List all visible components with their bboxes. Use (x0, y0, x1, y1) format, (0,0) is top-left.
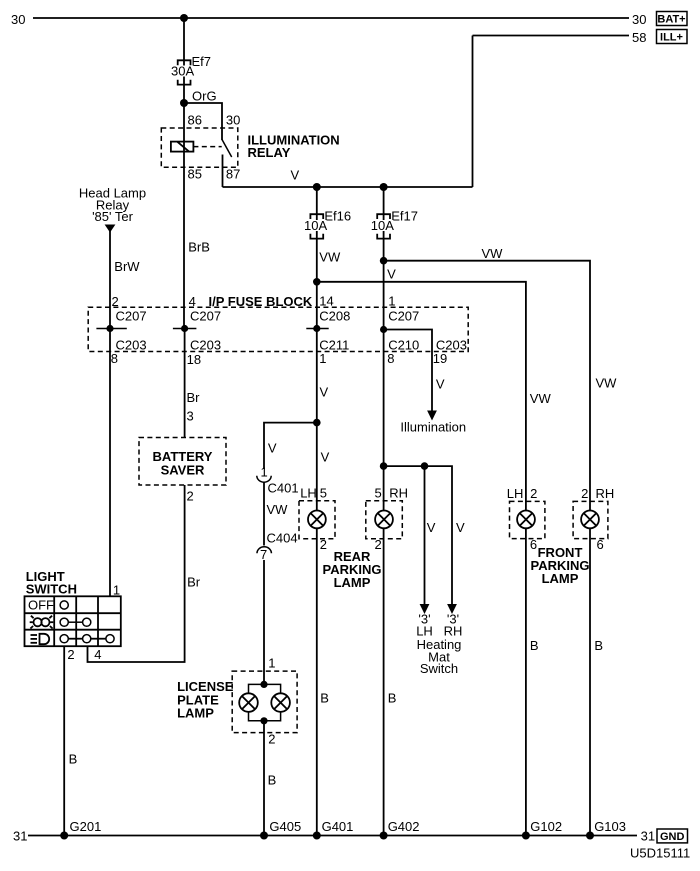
svg-text:7: 7 (260, 547, 267, 562)
wire Ef17 branch vertical to rear RH lamp (383, 187, 385, 511)
svg-text:B: B (594, 638, 603, 653)
rear RH lamp dashed box (366, 501, 403, 539)
svg-text:LAMP: LAMP (177, 706, 214, 721)
svg-text:6: 6 (530, 537, 537, 552)
svg-text:V: V (321, 450, 330, 465)
svg-text:4: 4 (94, 647, 101, 662)
junction dot G103 (586, 832, 594, 840)
svg-text:58: 58 (632, 30, 646, 45)
svg-text:18: 18 (187, 352, 201, 367)
fuse Ef17 rating 10A (370, 218, 394, 233)
arrowhead heating mat RH (447, 604, 457, 614)
svg-text:2: 2 (187, 489, 194, 504)
svg-text:V: V (436, 377, 445, 392)
license lamp left bulb (239, 693, 258, 712)
wire Br from fuse block to battery saver (184, 329, 186, 438)
front LH lamp dashed box (510, 501, 545, 538)
front RH lamp labels (581, 486, 614, 501)
label LICENSE PLATE LAMP (177, 679, 234, 721)
relay switch blade (222, 140, 232, 158)
wire main battery feed vertical (183, 18, 185, 103)
junction dot Ef16 branch to front LH lamp (313, 278, 321, 286)
svg-text:VW: VW (530, 391, 552, 406)
connector C401 socket arc (257, 476, 271, 482)
svg-text:C207: C207 (388, 309, 419, 324)
svg-text:LH: LH (507, 486, 524, 501)
svg-text:V: V (427, 520, 436, 535)
junction tick col1 (96, 328, 126, 330)
svg-text:VW: VW (319, 250, 341, 265)
svg-text:Ef7: Ef7 (192, 54, 212, 69)
svg-text:Switch: Switch (420, 661, 458, 676)
fuse Ef16 (310, 214, 323, 238)
svg-text:V: V (320, 385, 329, 400)
svg-text:1: 1 (261, 465, 268, 480)
arrow from Head Lamp Relay (105, 225, 116, 233)
label REAR PARKING LAMP (323, 549, 382, 590)
wire BrW from head lamp relay to light switch pin 1 (109, 231, 111, 597)
rear RH lamp bulb (375, 511, 393, 529)
wire Ef16 branch vertical to rear LH lamp (316, 187, 318, 511)
junction dot rear lamp feed branch (313, 419, 321, 427)
svg-text:G102: G102 (530, 819, 562, 834)
node Head Lamp Relay 85 Ter label (79, 186, 146, 225)
svg-text:C404: C404 (267, 531, 298, 546)
label Heating Mat Switch (417, 637, 462, 676)
relay dashed box (161, 128, 238, 167)
svg-text:C203: C203 (116, 338, 147, 353)
wire relay pin 87 lead (222, 155, 224, 188)
svg-text:87: 87 (226, 167, 240, 182)
junction dot G201 (60, 832, 68, 840)
light switch table frame (25, 596, 121, 646)
svg-text:OrG: OrG (192, 89, 217, 104)
junction dot G102 (522, 832, 530, 840)
svg-text:LH: LH (300, 486, 317, 501)
license plate lamp dashed box (232, 671, 297, 733)
wire 31 ground rail (28, 835, 637, 837)
svg-text:5: 5 (320, 486, 327, 501)
relay coil (171, 142, 194, 152)
junction dot col3 (313, 325, 320, 332)
fuse Ef16 rating 10A (304, 218, 328, 233)
rear LH lamp pin 5 labels (300, 486, 327, 501)
junction dot col1 (106, 325, 113, 332)
svg-text:V: V (456, 520, 465, 535)
wire relay coil feed (pin 86 to pin 85) (183, 103, 185, 329)
svg-text:Br: Br (187, 575, 201, 590)
wire battery saver output Br down and left to light switch pin 4 (88, 485, 185, 662)
wire V bus from relay 87 to ILL+ drop (223, 186, 473, 188)
wire rear RH lamp to ground (383, 528, 385, 835)
wire light switch pin 2 to ground G201 (63, 646, 65, 835)
rear LH lamp dashed box (299, 501, 335, 539)
svg-text:85: 85 (188, 167, 202, 182)
svg-text:V: V (268, 441, 277, 456)
label LIGHT SWITCH (26, 569, 77, 597)
fuse Ef7 (178, 60, 191, 84)
svg-text:B: B (69, 752, 78, 767)
svg-text:LAMP: LAMP (334, 575, 371, 590)
pin 7 C404 (260, 547, 269, 562)
svg-text:BAT+: BAT+ (657, 14, 685, 26)
wire heating mat branch horizontal (384, 466, 452, 605)
svg-text:I/P FUSE BLOCK: I/P FUSE BLOCK (209, 294, 313, 309)
svg-text:B: B (320, 691, 329, 706)
svg-text:1: 1 (268, 656, 275, 671)
svg-text:LAMP: LAMP (542, 571, 579, 586)
rear LH lamp bulb (308, 511, 326, 529)
svg-text:Br: Br (187, 390, 201, 405)
wire 58 ILL+ rail (473, 35, 630, 37)
svg-text:C208: C208 (319, 309, 350, 324)
svg-text:31: 31 (13, 829, 27, 844)
svg-text:1: 1 (113, 583, 120, 598)
wire branch to front LH parking lamp (317, 282, 526, 511)
light switch row3 bridges (68, 638, 106, 640)
junction dot col2 (181, 325, 188, 332)
svg-text:8: 8 (111, 351, 118, 366)
svg-text:10A: 10A (304, 218, 327, 233)
svg-text:19: 19 (433, 351, 447, 366)
svg-text:3: 3 (187, 409, 194, 424)
svg-text:6: 6 (597, 537, 604, 552)
battery saver dashed box (139, 438, 226, 486)
light switch contact row1 col2 (60, 601, 68, 609)
junction dot G401 (313, 832, 321, 840)
light switch contact row3 col4 (106, 635, 114, 643)
rear RH lamp pin 5 labels (375, 486, 409, 501)
light switch contact row2 col2 (60, 618, 68, 626)
wire illumination branch (384, 330, 432, 413)
svg-text:C207: C207 (190, 309, 221, 324)
svg-text:2: 2 (268, 732, 275, 747)
junction dot G405 (260, 832, 268, 840)
front RH lamp dashed box (573, 501, 608, 538)
svg-text:30: 30 (226, 113, 240, 128)
svg-text:B: B (268, 773, 277, 788)
node ILL+ box (657, 30, 688, 44)
front LH lamp labels (507, 486, 538, 501)
svg-text:C203: C203 (190, 338, 221, 353)
svg-text:10A: 10A (371, 218, 394, 233)
svg-text:G401: G401 (322, 819, 354, 834)
label FRONT PARKING LAMP (531, 545, 590, 586)
relay coil to switch dashed link (193, 146, 221, 148)
svg-text:G103: G103 (594, 819, 626, 834)
svg-text:30: 30 (632, 12, 646, 27)
svg-text:1: 1 (388, 294, 395, 309)
svg-text:SAVER: SAVER (161, 463, 205, 478)
connector C404 socket arc (257, 547, 271, 553)
svg-text:G402: G402 (388, 819, 420, 834)
junction dot G402 (380, 832, 388, 840)
svg-text:2: 2 (67, 647, 74, 662)
wire 30 BAT+ rail (33, 17, 629, 19)
svg-text:B: B (530, 638, 539, 653)
junction tick col3 (306, 328, 328, 330)
light switch contact row2 col3 (83, 618, 91, 626)
node OrG junction (180, 99, 188, 107)
svg-text:C401: C401 (268, 481, 299, 496)
license lamp right bulb (271, 693, 290, 712)
front LH lamp bulb (517, 511, 535, 529)
svg-text:VW: VW (267, 502, 289, 517)
svg-text:SWITCH: SWITCH (26, 582, 77, 597)
svg-text:VW: VW (596, 376, 618, 391)
license lamp internal wiring top (249, 684, 281, 693)
node GND box (657, 829, 688, 843)
svg-text:ILL+: ILL+ (660, 32, 683, 44)
arrowhead illumination (427, 411, 437, 421)
wire rear LH lamp to ground (316, 528, 318, 835)
svg-text:4: 4 (189, 294, 196, 309)
light switch row2 bridge (68, 621, 82, 623)
fuse Ef17 (377, 214, 390, 238)
svg-text:RH: RH (596, 486, 615, 501)
svg-text:B: B (388, 691, 397, 706)
svg-text:V: V (291, 168, 300, 183)
junction dot license lamp bottom (260, 717, 267, 724)
label ILLUMINATION RELAY (248, 133, 340, 161)
svg-text:2: 2 (375, 537, 382, 552)
svg-text:Illumination: Illumination (400, 420, 466, 435)
svg-text:VW: VW (482, 246, 504, 261)
svg-text:U5D15111: U5D15111 (630, 846, 690, 861)
wire front LH lamp to ground (525, 528, 527, 835)
svg-text:RELAY: RELAY (248, 145, 291, 160)
front RH lamp bulb (581, 511, 599, 529)
junction dot license lamp top (260, 681, 267, 688)
svg-text:30A: 30A (171, 64, 194, 79)
svg-text:2: 2 (320, 537, 327, 552)
svg-text:2: 2 (581, 486, 588, 501)
wire branch to relay contact 30 (184, 103, 222, 140)
svg-text:G201: G201 (70, 819, 102, 834)
junction on 30 rail (180, 14, 188, 22)
arrowhead heating mat LH (420, 604, 430, 614)
junction dot heating mat LH (421, 462, 429, 470)
light switch contact row3 col2 (60, 635, 68, 643)
junction dot heating mat branch (380, 462, 388, 470)
I/P fuse block dashed box (88, 307, 468, 351)
light switch contact row3 col3 (83, 635, 91, 643)
license lamp internal wiring bottom (249, 712, 281, 721)
junction dot Ef17 branch to front RH lamp (380, 257, 388, 265)
svg-text:2: 2 (530, 486, 537, 501)
svg-text:GND: GND (660, 831, 685, 843)
fuse Ef7 rating 30A (171, 64, 195, 79)
svg-text:Ef16: Ef16 (324, 209, 351, 224)
svg-text:'85' Ter: '85' Ter (92, 209, 134, 224)
svg-text:BrW: BrW (114, 259, 140, 274)
wire branch to C401 license lamp feed (264, 423, 317, 469)
junction Ef16 top dot (313, 183, 321, 191)
svg-text:C207: C207 (116, 309, 147, 324)
svg-text:8: 8 (387, 351, 394, 366)
wire license plate lamp feed (263, 560, 265, 684)
light switch head lamp icon (31, 634, 50, 644)
label BATTERY SAVER (153, 449, 213, 478)
junction Ef17 top dot (380, 183, 388, 191)
svg-text:OFF: OFF (28, 598, 54, 613)
svg-text:31: 31 (641, 829, 655, 844)
svg-text:30: 30 (11, 12, 25, 27)
svg-text:RH: RH (389, 486, 408, 501)
wire ILL+ vertical drop to V bus (472, 36, 474, 188)
svg-text:5: 5 (375, 486, 382, 501)
svg-text:V: V (387, 267, 396, 282)
junction dot col4 (380, 326, 387, 333)
wire license lamp to ground (263, 721, 265, 836)
svg-text:G405: G405 (269, 819, 301, 834)
wire VW between C401 and C404 (263, 482, 265, 546)
light switch parking lamp icon (30, 616, 54, 629)
wire front RH lamp to ground (589, 528, 591, 835)
junction tick col2 (173, 328, 197, 330)
wire heating mat LH drop (424, 466, 426, 605)
svg-text:86: 86 (188, 113, 202, 128)
svg-text:Ef17: Ef17 (391, 209, 418, 224)
wire branch to front RH parking lamp (384, 261, 590, 511)
svg-text:14: 14 (319, 294, 333, 309)
svg-text:1: 1 (319, 351, 326, 366)
node BAT+ box (657, 12, 688, 26)
svg-text:BrB: BrB (188, 240, 210, 255)
